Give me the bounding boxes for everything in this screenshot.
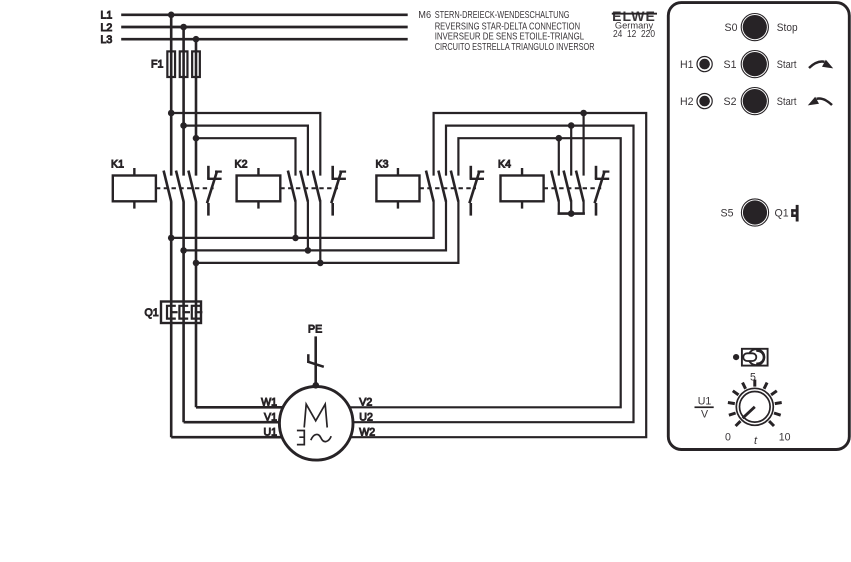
svg-text:F1: F1: [151, 59, 163, 71]
svg-text:W2: W2: [359, 426, 375, 438]
svg-text:K1: K1: [111, 159, 124, 171]
svg-text:L1: L1: [101, 10, 113, 22]
svg-text:U1: U1: [698, 395, 712, 407]
svg-text:Q1: Q1: [775, 207, 789, 219]
svg-text:S1: S1: [724, 59, 737, 71]
svg-text:Start: Start: [777, 96, 797, 108]
svg-text:K2: K2: [235, 159, 248, 171]
svg-text:Stop: Stop: [777, 22, 798, 34]
svg-text:V2: V2: [359, 397, 372, 409]
svg-text:t: t: [754, 435, 758, 447]
svg-text:Start: Start: [777, 59, 797, 71]
svg-text:INVERSEUR DE SENS ETOILE-TRIAN: INVERSEUR DE SENS ETOILE-TRIANGL: [435, 32, 585, 43]
svg-text:L3: L3: [101, 34, 113, 46]
svg-text:Q1: Q1: [145, 307, 159, 319]
svg-text:V: V: [701, 409, 709, 421]
svg-text:STERN-DREIECK-WENDESCHALTUNG: STERN-DREIECK-WENDESCHALTUNG: [435, 10, 570, 21]
svg-text:K3: K3: [376, 159, 389, 171]
svg-text:L2: L2: [101, 22, 113, 34]
svg-text:PE: PE: [308, 324, 322, 336]
svg-text:U2: U2: [359, 411, 373, 423]
svg-text:M6: M6: [418, 10, 431, 21]
svg-text:H2: H2: [680, 96, 694, 108]
svg-text:S0: S0: [725, 22, 738, 34]
svg-text:V1: V1: [264, 411, 277, 423]
svg-text:10: 10: [779, 432, 791, 444]
svg-text:K4: K4: [498, 159, 511, 171]
svg-text:S2: S2: [724, 96, 737, 108]
svg-text:5: 5: [750, 371, 756, 383]
svg-text:U1: U1: [263, 426, 277, 438]
svg-text:W1: W1: [261, 397, 277, 409]
svg-text:24 12 220: 24 12 220: [613, 29, 655, 40]
svg-text:S5: S5: [721, 207, 734, 219]
svg-text:H1: H1: [680, 59, 694, 71]
svg-text:0: 0: [725, 432, 731, 444]
svg-text:CIRCUITO ESTRELLA TRIANGULO IN: CIRCUITO ESTRELLA TRIANGULO INVERSOR: [435, 42, 595, 53]
